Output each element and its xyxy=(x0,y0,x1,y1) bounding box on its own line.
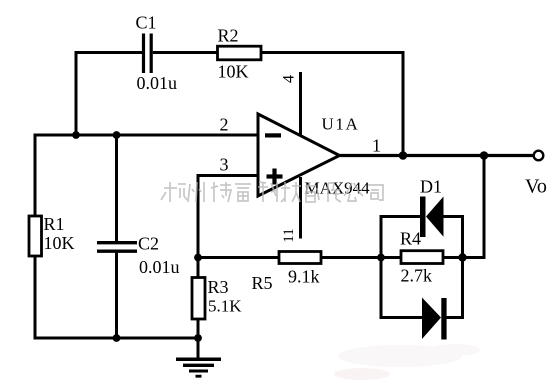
wire feedback vertical xyxy=(402,51,405,156)
wire R3 lower xyxy=(197,319,200,359)
wire network right tap vertical xyxy=(483,156,486,258)
smudge pink bottom xyxy=(334,344,480,380)
wire left vertical upper xyxy=(34,134,37,218)
diode D1 xyxy=(420,197,444,238)
wire network right vertical xyxy=(461,217,464,318)
node junction bottom C2 xyxy=(113,334,121,342)
resistor R2 xyxy=(218,46,262,60)
svg-text:4: 4 xyxy=(281,75,298,83)
op-amp minus input mark xyxy=(265,133,281,137)
wire pin3 horizontal xyxy=(198,174,258,177)
wire left vertical lower xyxy=(34,256,37,340)
svg-text:D1: D1 xyxy=(420,177,442,197)
svg-text:10K: 10K xyxy=(218,62,249,82)
capacitor C2 xyxy=(97,243,137,252)
resistor R3 xyxy=(192,278,205,320)
wire R4 branch right xyxy=(443,256,463,259)
terminal Vo circle xyxy=(534,151,544,161)
wire network left vertical xyxy=(380,217,383,318)
wire top horizontal left segment xyxy=(75,51,143,54)
wire top horizontal middle segment xyxy=(153,51,218,54)
node junction network left xyxy=(377,254,385,262)
node junction at x116 xyxy=(113,131,121,139)
node junction network tap xyxy=(480,151,489,160)
node junction network right xyxy=(458,253,466,261)
pin 11 stub xyxy=(299,177,302,239)
diode D2 xyxy=(422,298,447,340)
wire D2 branch xyxy=(380,316,465,319)
svg-text:10K: 10K xyxy=(44,233,75,253)
wire top horizontal right segment xyxy=(261,51,403,54)
svg-text:R1: R1 xyxy=(44,214,65,234)
pin 4 stub xyxy=(299,72,302,135)
op-amp plus input mark xyxy=(267,169,283,185)
svg-text:2: 2 xyxy=(220,115,229,135)
node junction feedback xyxy=(399,151,408,160)
wire bottom horizontal xyxy=(34,337,199,340)
svg-text:0.01u: 0.01u xyxy=(137,73,178,93)
wire D1 branch xyxy=(380,215,465,218)
wire R5 left segment xyxy=(198,256,279,259)
resistor R4 xyxy=(401,251,443,264)
wire C2 branch upper xyxy=(115,135,118,242)
svg-text:5.1K: 5.1K xyxy=(208,297,242,316)
wire R5 right segment xyxy=(321,256,381,259)
node junction R3 top xyxy=(194,254,202,262)
resistor R1 xyxy=(29,216,42,256)
svg-text:C1: C1 xyxy=(136,13,157,33)
svg-text:3: 3 xyxy=(220,155,229,175)
watermark hangzhou jiangrui gray characters xyxy=(161,182,383,202)
node junction bottom R3 xyxy=(194,334,202,342)
svg-text:R4: R4 xyxy=(400,229,421,249)
svg-text:R2: R2 xyxy=(218,26,239,46)
node junction at x76 xyxy=(72,131,80,139)
svg-text:11: 11 xyxy=(281,228,297,242)
svg-text:0.01u: 0.01u xyxy=(139,257,180,277)
wire R4 branch left xyxy=(381,256,401,259)
wire network right tap horizontal xyxy=(463,256,486,259)
resistor R5 xyxy=(279,252,321,264)
wire output xyxy=(340,154,534,157)
svg-text:U1A: U1A xyxy=(322,115,360,134)
wire pin3 vertical xyxy=(197,174,200,258)
capacitor C1 xyxy=(144,34,152,74)
svg-text:R3: R3 xyxy=(208,277,229,297)
wire inverting input (pin 2) xyxy=(34,134,259,137)
svg-text:C2: C2 xyxy=(138,234,159,254)
wire top-left vertical xyxy=(75,53,78,137)
svg-text:2.7k: 2.7k xyxy=(401,266,433,286)
wire C2 branch lower xyxy=(115,253,118,338)
svg-text:9.1k: 9.1k xyxy=(288,267,320,287)
ground xyxy=(176,359,221,376)
op-amp U1A xyxy=(258,114,340,196)
wire R3 upper xyxy=(197,258,200,279)
svg-text:Vo: Vo xyxy=(525,176,547,198)
svg-text:1: 1 xyxy=(372,136,381,156)
svg-text:R5: R5 xyxy=(252,273,273,293)
